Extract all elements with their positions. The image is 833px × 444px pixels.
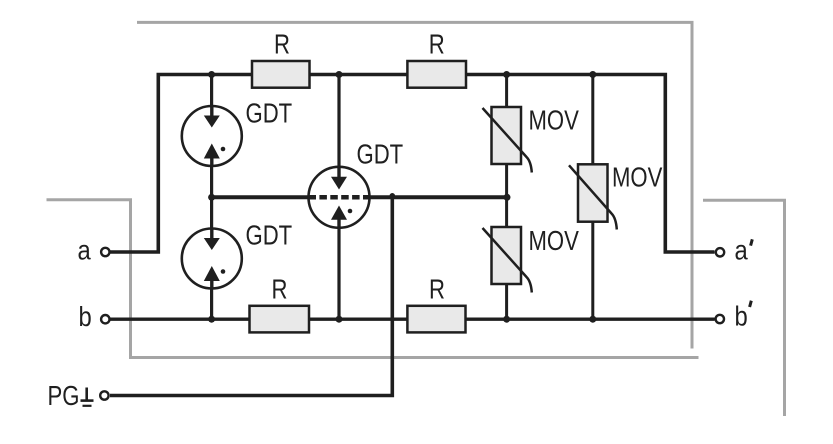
label a' <box>735 234 753 266</box>
svg-text:R: R <box>429 29 445 60</box>
junction b wire x GDT2 column <box>208 316 215 323</box>
svg-text:R: R <box>272 274 288 305</box>
svg-text:b: b <box>735 300 748 332</box>
junction middle bus x PG riser <box>390 193 396 199</box>
junction top rail x MOV3 column <box>589 71 596 78</box>
wire middle electrode bus <box>212 195 507 199</box>
label b' <box>735 300 752 332</box>
terminal b <box>101 315 109 323</box>
terminal b' <box>716 315 724 323</box>
wire a to a' (a terminal, up, top rail, down, to a') <box>110 75 715 253</box>
resistor R4 <box>407 306 465 333</box>
terminal a' <box>716 248 724 256</box>
junction b wire x MOV2 column <box>503 316 510 323</box>
resistor R2 <box>407 61 466 88</box>
terminal PG <box>100 391 108 399</box>
resistor R1 <box>252 61 310 88</box>
svg-text:a: a <box>78 233 92 265</box>
junction middle bus x MOV1 column <box>504 194 511 201</box>
gas discharge tube GDT1 <box>182 106 242 166</box>
wire PG to middle bus <box>110 197 392 395</box>
svg-text:PG: PG <box>48 380 80 411</box>
svg-text:a: a <box>735 234 749 266</box>
enclosure outline top/right (gray) <box>137 22 692 348</box>
svg-text:GDT: GDT <box>246 220 293 251</box>
junction b wire x MOV3 column <box>589 316 596 323</box>
wire MOV column left <box>505 75 508 320</box>
enclosure outline left/bottom (gray) <box>47 200 699 358</box>
junction b wire x GDT3 column <box>336 316 343 323</box>
gas discharge tube GDT2 <box>182 229 242 289</box>
resistor R3 <box>250 306 310 333</box>
svg-text:MOV: MOV <box>529 105 580 136</box>
wire GDT column left <box>210 75 213 320</box>
svg-text:GDT: GDT <box>246 98 293 129</box>
junction top rail x MOV1 column <box>503 71 510 78</box>
svg-text:R: R <box>274 29 290 60</box>
svg-text:GDT: GDT <box>357 139 404 170</box>
right cable shield bracket (gray) <box>703 200 785 416</box>
varistor MOV1 <box>483 107 532 173</box>
gas discharge tube GDT3 (3-electrode) <box>309 167 370 228</box>
wire GDT column center <box>337 75 340 320</box>
svg-text:R: R <box>429 274 445 305</box>
varistor MOV2 <box>483 227 532 293</box>
svg-text:MOV: MOV <box>612 162 663 193</box>
ground symbol <box>81 388 94 406</box>
junction top rail x GDT3 column <box>336 71 343 78</box>
junction middle bus x GDT column <box>208 194 215 201</box>
terminal a <box>101 248 109 256</box>
wire MOV column right <box>591 75 594 320</box>
svg-text:MOV: MOV <box>529 226 580 257</box>
varistor MOV3 <box>569 164 617 229</box>
svg-text:b: b <box>79 300 92 332</box>
junction top rail x GDT1 column <box>208 71 215 78</box>
wire b to b' <box>110 318 715 321</box>
